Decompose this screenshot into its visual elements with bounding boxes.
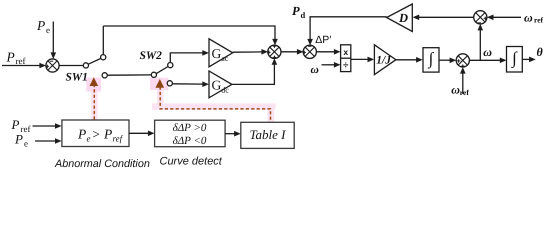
amplifier 1/J <box>374 45 396 75</box>
svg-text:e: e <box>24 139 28 149</box>
control dashed line to SW1 <box>93 86 95 120</box>
wire curve detector to table <box>225 131 241 137</box>
switch SW1 lower contact <box>102 73 107 78</box>
wire top rail to S2 <box>103 26 277 45</box>
wire divider to 1/J <box>351 57 374 63</box>
divider block x÷ <box>341 45 351 72</box>
label Pref (comparator input) <box>11 117 31 134</box>
svg-text:P: P <box>77 127 86 142</box>
wire Pe input <box>51 22 57 60</box>
svg-text:ω: ω <box>483 45 492 59</box>
wire Gdc to S2 <box>232 58 277 84</box>
wire SW1 upper contact to top rail <box>102 26 104 55</box>
svg-text:d: d <box>301 10 306 20</box>
wire ω tap to S5 <box>478 24 484 60</box>
wire SW2 lower contact to Gdc <box>172 81 209 87</box>
svg-text:e: e <box>46 25 50 35</box>
wire SW1 to SW2 <box>107 74 151 76</box>
summing junction S4 <box>456 54 469 68</box>
svg-text:δΔP >0: δΔP >0 <box>173 122 207 134</box>
highlight behind SW1 dashed control line <box>86 78 101 121</box>
svg-text:G: G <box>212 78 222 93</box>
svg-text:x: x <box>343 47 348 57</box>
summing junction S2 <box>267 45 281 60</box>
amplifier D <box>387 4 413 32</box>
svg-text:δΔP <0: δΔP <0 <box>173 135 207 147</box>
svg-text:÷: ÷ <box>343 60 348 71</box>
label ωref top <box>524 10 544 24</box>
switch SW2 lower contact <box>167 81 172 86</box>
wire Pref to comparator <box>33 123 62 129</box>
label Pe (top input) <box>36 18 50 35</box>
svg-text:G: G <box>212 46 222 61</box>
amplifier Gac <box>209 39 233 67</box>
label ωref lower <box>451 83 469 97</box>
wire ωref to S4 <box>460 67 466 94</box>
svg-text:ΔP′: ΔP′ <box>315 34 331 46</box>
control arrowhead SW1 <box>90 77 99 86</box>
svg-text:dc: dc <box>221 86 229 95</box>
svg-text:e: e <box>87 134 91 144</box>
switch SW2 lever <box>156 67 168 74</box>
svg-text:∫: ∫ <box>511 48 518 68</box>
svg-text:P: P <box>14 132 23 147</box>
switch SW1 upper contact <box>101 55 106 60</box>
label Pe (comparator input) <box>14 132 28 149</box>
wire comparator to curve detector <box>129 131 155 137</box>
svg-text:P: P <box>6 50 15 65</box>
wire S2 to S3 <box>281 49 304 55</box>
svg-text:Table I: Table I <box>250 127 287 142</box>
summing junction S1 <box>46 59 60 72</box>
svg-text:>: > <box>93 127 100 142</box>
svg-text:D: D <box>398 11 408 25</box>
switch SW1 pole <box>83 63 88 68</box>
label Pd <box>292 4 306 20</box>
switch SW2 pole <box>151 72 156 77</box>
svg-text:ac: ac <box>221 54 229 63</box>
wire S5 to D <box>413 15 474 21</box>
svg-text:P: P <box>11 117 20 132</box>
wire integrator 2 to θ <box>522 57 535 63</box>
summing junction S5 <box>474 11 487 24</box>
svg-text:P: P <box>36 18 45 33</box>
svg-text:Curve detect: Curve detect <box>160 156 223 168</box>
switch SW2 upper contact <box>168 63 173 68</box>
summing junction S3 (ΔP') <box>303 45 317 58</box>
wire S4 to integrator 2 <box>469 58 506 64</box>
wire Pe to comparator <box>35 138 62 144</box>
svg-text:θ: θ <box>537 45 544 59</box>
svg-text:1/J: 1/J <box>376 55 392 67</box>
wire ωref to S5 <box>487 15 521 21</box>
svg-text:ref: ref <box>16 56 26 66</box>
wire ω to divider <box>322 62 341 68</box>
integrator 1 <box>423 48 439 72</box>
control arrowhead SW2 <box>156 79 165 88</box>
wire Gac to S2 <box>233 49 268 55</box>
wire S3 to divider <box>316 49 340 55</box>
svg-text:ω: ω <box>524 10 533 24</box>
curve detector box <box>155 120 226 147</box>
wire 1/J to integrator 1 <box>396 57 423 63</box>
integrator 2 <box>507 47 523 73</box>
highlight behind SW2 dashed control line <box>150 78 275 122</box>
wire D feedback to S3 <box>307 17 386 46</box>
svg-text:∫: ∫ <box>428 49 435 69</box>
wire Pref input <box>2 63 46 69</box>
svg-text:P: P <box>292 4 300 18</box>
svg-text:ref: ref <box>534 16 544 25</box>
label Pref (left input) <box>6 50 26 67</box>
svg-text:P: P <box>103 127 112 142</box>
switch SW1 lever <box>88 58 101 64</box>
control dashed line to SW2 <box>160 87 270 122</box>
svg-text:ref: ref <box>113 134 124 144</box>
wire SW2 upper contact to Gac <box>170 50 209 62</box>
svg-text:SW2: SW2 <box>140 50 163 62</box>
svg-text:Abnormal Condition: Abnormal Condition <box>54 158 150 170</box>
comparator box Pe > Pref <box>62 120 129 147</box>
table box Table I <box>241 122 294 148</box>
wire integrator 1 to S4 <box>439 58 456 64</box>
svg-text:ref: ref <box>460 88 470 97</box>
svg-text:SW1: SW1 <box>66 72 88 84</box>
amplifier Gdc <box>209 71 232 98</box>
svg-text:ω: ω <box>311 64 319 76</box>
wire S1 to SW1 <box>59 65 83 67</box>
